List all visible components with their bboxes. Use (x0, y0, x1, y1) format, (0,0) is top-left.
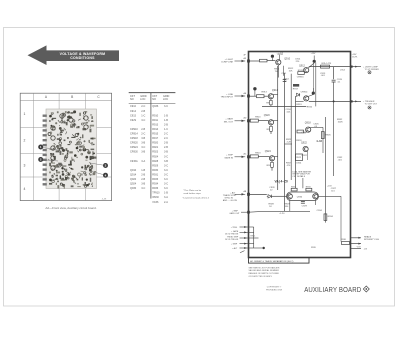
resistor R933 (306, 186, 312, 191)
resistor R909 (260, 59, 268, 62)
svg-text:R920: R920 (152, 142, 159, 145)
resistor R914 (321, 63, 332, 68)
svg-text:R916: R916 (307, 107, 313, 109)
capacitor C928 (269, 187, 275, 191)
svg-text:3-C: 3-C (164, 187, 168, 190)
svg-text:C914: C914 (130, 110, 137, 113)
wire ground rail y211 (249, 211, 311, 215)
connector pin B1 + TRIG (231, 226, 249, 229)
wire bus right mid (304, 132, 306, 134)
input terminal AB + ALT TRACE SYNC (223, 190, 250, 202)
resistor R915 (298, 70, 305, 75)
wire trigd swp y237 (249, 236, 259, 238)
svg-text:A2. SWEEP & TRACE SEPARATION: A2. SWEEP & TRACE SEPARATION (SH 2) (250, 260, 293, 263)
wire Q924 collector to bus (274, 155, 278, 157)
svg-text:R915: R915 (298, 70, 304, 72)
svg-text:3-B: 3-B (141, 142, 145, 145)
bus signal vertical C (295, 96, 297, 188)
wire +15V dots link (312, 63, 314, 92)
svg-text:+ LIGHT: + LIGHT (225, 59, 234, 61)
wire bus bl vertical (249, 227, 254, 248)
svg-text:L914: L914 (340, 69, 346, 71)
wire input 1 to R909 (243, 54, 259, 61)
svg-text:Q910: Q910 (130, 169, 137, 172)
capacitor C912 (284, 78, 290, 82)
svg-text:R926: R926 (325, 134, 331, 136)
svg-text:1-B: 1-B (164, 192, 168, 195)
label C927 (331, 188, 337, 192)
label CR916 (297, 76, 305, 78)
ground stub bottom left (240, 251, 245, 253)
svg-text:3-C: 3-C (164, 183, 168, 186)
label C916 (286, 109, 292, 113)
svg-text:C910: C910 (130, 105, 137, 108)
capacitor C929 (301, 202, 308, 208)
output label READS INTENSITY (364, 235, 379, 241)
svg-text:3-B: 3-B (141, 183, 145, 186)
svg-text:3-C: 3-C (141, 187, 145, 190)
wire C915 down (333, 82, 335, 176)
svg-text:DLYD TRIG IN: DLYD TRIG IN (225, 239, 239, 241)
wire Q930A emitter down (289, 199, 291, 211)
capacitor C922 (302, 155, 308, 157)
wire horizontal y106 (262, 105, 306, 107)
svg-text:CKT DETAILS: CKT DETAILS (292, 175, 305, 178)
svg-text:3-C: 3-C (164, 173, 168, 176)
bus signal vertical A (284, 73, 286, 211)
label R925 (286, 139, 292, 143)
svg-text:Q936: Q936 (152, 105, 159, 108)
svg-text:CR910: CR910 (130, 128, 138, 131)
svg-text:3-A: 3-A (141, 160, 145, 163)
transistor Q920 (264, 114, 274, 125)
svg-text:1-B: 1-B (164, 119, 168, 122)
wire input5 to CR930 (249, 194, 267, 196)
transistor Q910 (276, 58, 291, 65)
svg-text:1-C: 1-C (141, 114, 145, 117)
svg-text:COMP LINE: COMP LINE (221, 62, 234, 64)
wire Q920 collector to bus (273, 120, 278, 122)
label R916b (307, 107, 313, 109)
svg-text:R917: R917 (293, 88, 299, 90)
svg-text:3-A: 3-A (164, 196, 168, 199)
resistor R920 (250, 117, 261, 123)
svg-text:R936: R936 (152, 187, 159, 190)
wire Q930B collector right (319, 195, 342, 197)
svg-text:Q918: Q918 (305, 122, 312, 125)
svg-text:R913: R913 (152, 123, 159, 126)
label C932 (337, 157, 343, 161)
output label +LIGHT COMP (363, 66, 379, 71)
connector pin B2 + GATE (225, 230, 248, 235)
A2 auxiliary circuit board photo (43, 109, 97, 189)
parts location table (129, 93, 176, 204)
svg-text:R924: R924 (152, 155, 159, 158)
svg-text:2-B: 2-B (164, 142, 168, 145)
svg-text:R919: R919 (296, 104, 302, 106)
output wire y248.4 (351, 247, 368, 251)
svg-text:R910: R910 (152, 114, 159, 117)
output label +TRIGGER (363, 101, 377, 106)
svg-text:3-C: 3-C (164, 169, 168, 172)
resistor R938 (311, 239, 350, 249)
capacitor C934 (317, 210, 323, 212)
svg-text:Q910: Q910 (284, 58, 291, 61)
svg-text:1: 1 (24, 112, 26, 116)
label R927 (286, 163, 292, 167)
svg-text:VA| 4–Z0: VA| 4–Z0 (275, 180, 288, 184)
test point TP910 (271, 54, 284, 61)
+15V stub top right (311, 53, 316, 63)
svg-text:R921: R921 (152, 146, 159, 149)
wire Q910 emitter down (277, 65, 279, 78)
svg-text:OR DEPICTED IN GREY.: OR DEPICTED IN GREY. (249, 276, 273, 278)
svg-text:2-B: 2-B (141, 128, 145, 131)
wire node to edge y101 (309, 100, 351, 102)
input terminal AA sweep gate (229, 210, 249, 215)
svg-text:CR924: CR924 (130, 146, 138, 149)
capacitor C914 (295, 58, 301, 62)
input terminal AE + LINE TRIG INPUT (221, 92, 250, 99)
connector pin B4 + SWP (231, 243, 249, 246)
svg-text:3-B: 3-B (164, 151, 168, 154)
svg-text:CR930: CR930 (130, 151, 138, 154)
svg-text:2: 2 (24, 139, 26, 143)
svg-text:W930: W930 (152, 196, 159, 199)
wire alt y248 (249, 247, 265, 249)
wire to C915 (333, 67, 335, 80)
resistor R924 (267, 161, 274, 171)
svg-text:C929: C929 (130, 119, 137, 122)
label C924 (296, 163, 302, 165)
transistor Q912 (299, 64, 309, 72)
svg-text:3-C: 3-C (164, 105, 168, 108)
svg-text:R920: R920 (255, 117, 261, 119)
svg-text:2-C: 2-C (141, 133, 145, 136)
svg-text:3-C: 3-C (141, 119, 145, 122)
svg-text:INTENSITY SIG: INTENSITY SIG (364, 239, 379, 241)
wire Q914 collector to bus (273, 93, 278, 95)
svg-text:*Lowered no loads of line 4: *Lowered no loads of line 4 (183, 197, 210, 200)
wire Q916 base left (296, 100, 304, 102)
svg-text:2.2K: 2.2K (287, 142, 292, 144)
svg-text:CONDITIONS: CONDITIONS (70, 56, 95, 60)
svg-text:R928: R928 (152, 160, 159, 163)
resistor R929 (284, 204, 290, 208)
diagram title AUXILIARY BOARD (304, 286, 369, 294)
schematic border (249, 52, 351, 258)
svg-text:R913: R913 (262, 91, 268, 93)
wire input 2 (249, 95, 257, 97)
svg-text:C934: C934 (317, 210, 323, 212)
svg-text:2-A: 2-A (164, 201, 168, 204)
label R932 (337, 119, 343, 123)
svg-text:3-C: 3-C (164, 164, 168, 167)
callout 3 (90, 163, 108, 168)
dual transistor Q930 package (287, 192, 319, 201)
svg-text:+ SWP: + SWP (231, 243, 238, 245)
svg-text:4–20: 4–20 (280, 213, 286, 215)
svg-text:1-B: 1-B (141, 169, 145, 172)
svg-text:10K: 10K (289, 71, 293, 73)
svg-text:AUXILIARY BOARD: AUXILIARY BOARD (304, 286, 361, 294)
svg-text:DLYD TRIG IN: DLYD TRIG IN (225, 233, 239, 235)
resistor R928 (269, 204, 275, 208)
svg-text:R917: R917 (152, 137, 159, 140)
svg-text:3-C: 3-C (164, 178, 168, 181)
transistor Q924 (265, 150, 275, 161)
wire input 3 (249, 120, 251, 122)
svg-text:TO LT DRIVER: TO LT DRIVER (365, 69, 380, 71)
svg-text:used further steps: used further steps (183, 192, 201, 195)
resistor R921 (267, 125, 273, 134)
diode CR930 (267, 195, 272, 198)
svg-text:3: 3 (24, 164, 26, 168)
svg-text:+ GATE: + GATE (225, 118, 233, 121)
output wire y237.8 (351, 237, 362, 239)
svg-text:Q914: Q914 (130, 173, 137, 176)
svg-text:C911: C911 (281, 73, 287, 75)
+15V stub Q916 (308, 88, 315, 96)
svg-text:R915: R915 (152, 133, 159, 136)
svg-text:+ SWP: + SWP (226, 155, 233, 157)
svg-text:CR918: CR918 (130, 137, 138, 140)
svg-text:2-B: 2-B (141, 173, 145, 176)
svg-text:C924: C924 (296, 163, 302, 165)
svg-text:R934: R934 (152, 183, 159, 186)
note block master sweep (292, 170, 311, 178)
wire R926 down (307, 151, 309, 160)
svg-text:SEE PARTS LIST FOR EARLIER: SEE PARTS LIST FOR EARLIER (249, 266, 280, 269)
resistor R931 (291, 186, 297, 191)
svg-text:LOC: LOC (140, 98, 145, 101)
output wire y243.6 (351, 243, 362, 245)
svg-text:100K: 100K (338, 121, 344, 123)
svg-text:2-C: 2-C (164, 137, 168, 140)
label R919 (296, 104, 302, 106)
svg-text:4-48: 4-48 (102, 199, 107, 201)
input terminal AD + GATE SEL OUT (224, 117, 250, 124)
svg-text:Q924: Q924 (265, 150, 272, 153)
resistor R934 (324, 214, 334, 221)
resistor R913 (257, 91, 268, 97)
svg-text:C936A: C936A (130, 160, 138, 163)
svg-text:NO: NO (152, 98, 156, 101)
board caption (45, 199, 107, 210)
svg-text:Q924: Q924 (130, 183, 137, 186)
capacitor C915 (332, 79, 343, 84)
svg-text:+ ALT: + ALT (232, 247, 238, 250)
svg-text:B: B (71, 95, 73, 99)
waveform marker VA 4-20 (275, 180, 288, 184)
svg-text:1-C: 1-C (164, 128, 168, 131)
transistor Q922 (301, 141, 308, 151)
svg-text:3-C: 3-C (164, 155, 168, 158)
output wire y66.6 (350, 66, 361, 68)
label L914 (340, 69, 346, 71)
wire R913 to Q914 (264, 95, 268, 97)
svg-text:R914 47K: R914 47K (322, 63, 332, 65)
svg-text:R923: R923 (152, 151, 159, 154)
diode CR914 (297, 92, 309, 97)
svg-text:C929: C929 (302, 205, 308, 207)
svg-text:Q922: Q922 (301, 141, 308, 144)
resistor R917 (293, 84, 299, 90)
svg-text:2-C: 2-C (141, 105, 145, 108)
svg-text:DCPL: DCPL (352, 56, 358, 58)
svg-text:3-B: 3-B (164, 160, 168, 163)
wire CR930 to Q930A (271, 195, 286, 197)
capacitor C912 symbol (283, 80, 287, 82)
svg-text:Q920: Q920 (130, 178, 137, 181)
wire Q910 collector up (278, 53, 283, 61)
svg-text:2-C: 2-C (164, 133, 168, 136)
svg-text:RANGES OF PARTS OUTLINED: RANGES OF PARTS OUTLINED (249, 272, 280, 275)
svg-text:R933: R933 (152, 178, 159, 181)
svg-text:A2—Front view, Auxiliary circu: A2—Front view, Auxiliary circuit board. (45, 206, 96, 210)
callout 2 (38, 157, 58, 162)
svg-text:R930: R930 (152, 169, 159, 172)
wire R920 to Q920 (258, 120, 268, 122)
svg-text:3-B: 3-B (141, 137, 145, 140)
transistor Q916 (304, 96, 309, 101)
svg-text:4–16: 4–16 (316, 139, 322, 143)
svg-text:SYNC IN: SYNC IN (224, 198, 233, 200)
svg-text:R911: R911 (152, 119, 158, 122)
callout 4 (90, 171, 108, 178)
input terminal AF + LIGHT COMP LINE (221, 57, 250, 64)
svg-text:−15V: −15V (356, 247, 361, 249)
waveform marker 4-16 (316, 139, 322, 143)
coax symbol 2 (368, 106, 371, 109)
connector pin B5 + ALT (232, 247, 248, 250)
wire Q914 emitter down (266, 99, 272, 107)
svg-text:VOLTAGE & WAVEFORM: VOLTAGE & WAVEFORM (60, 52, 106, 56)
board locator grid frame (20, 93, 111, 200)
svg-text:CR916: CR916 (297, 76, 305, 78)
svg-text:NO: NO (130, 98, 134, 101)
resistor R923 (250, 152, 261, 158)
svg-text:TP910: TP910 (152, 192, 160, 195)
copyright note (266, 286, 283, 292)
svg-text:Q920: Q920 (264, 114, 271, 117)
coax symbol 1 (368, 71, 371, 74)
svg-text:+15V: +15V (311, 53, 316, 55)
capacitor C911 (281, 66, 287, 76)
svg-text:GATE IN: GATE IN (224, 157, 233, 160)
resistor R922 (296, 154, 303, 161)
+15V corner stub (352, 54, 359, 58)
svg-text:+ LINE: + LINE (226, 94, 233, 96)
svg-text:3-C: 3-C (141, 146, 145, 149)
svg-text:Q912: Q912 (299, 64, 306, 67)
svg-text:3-B: 3-B (141, 151, 145, 154)
schematic title block (249, 258, 310, 264)
wire R914 line to edge (309, 66, 351, 68)
connector pin B3 TRIGD SWP (225, 237, 248, 241)
svg-text:GATE OUT: GATE OUT (229, 212, 240, 215)
svg-text:CR914: CR914 (130, 133, 138, 136)
svg-text:2-B: 2-B (141, 178, 145, 181)
wire bus to R931 (302, 178, 304, 188)
callout 1 (38, 145, 58, 151)
wire Q930B emitter down (314, 199, 316, 205)
svg-text:R923: R923 (255, 152, 261, 154)
svg-text:R934: R934 (328, 216, 334, 218)
label C913 (320, 73, 326, 77)
svg-text:COPYRIGHT ©: COPYRIGHT © (267, 286, 282, 289)
section tab arrow VOLTAGE & WAVEFORM CONDITIONS (28, 45, 120, 65)
label C926 (313, 123, 319, 127)
transistor Q918 (305, 122, 312, 133)
svg-text:1-B: 1-B (164, 114, 168, 117)
wire right vert to outputs (340, 196, 342, 241)
svg-text:AND → GLOW: AND → GLOW (223, 199, 237, 202)
svg-text:C915: C915 (130, 114, 137, 117)
bus +15V vertical (277, 66, 279, 190)
svg-text:PROVIDED 1969: PROVIDED 1969 (266, 289, 283, 291)
svg-text:R929: R929 (152, 164, 159, 167)
wire stub y140 (285, 143, 293, 145)
input terminal AC + SWP GATE IN (224, 153, 249, 160)
resistor R918 (296, 130, 303, 142)
transistor Q914 (268, 89, 278, 99)
svg-text:4: 4 (24, 187, 26, 191)
bus +15V right (325, 117, 332, 223)
svg-text:XC36: XC36 (152, 201, 159, 204)
svg-text:2-B: 2-B (141, 110, 145, 113)
resistor R926 vertical (321, 132, 331, 139)
svg-text:*This Plate can be: *This Plate can be (183, 189, 202, 192)
resistor R911 (274, 68, 280, 73)
decoupling dot C913 (253, 87, 256, 96)
wire input 4 (249, 155, 251, 157)
svg-text:CR914: CR914 (301, 92, 309, 94)
svg-text:R931: R931 (152, 173, 159, 176)
capacitor C918 (302, 132, 308, 134)
svg-text:READS: READS (364, 235, 372, 238)
svg-text:LOC: LOC (163, 98, 168, 101)
wire R923 to Q924 (258, 155, 269, 157)
bus signal vertical B (290, 74, 292, 180)
output wire y101.4 (350, 100, 361, 102)
svg-text:Q930: Q930 (130, 187, 137, 190)
svg-text:2-B: 2-B (164, 146, 168, 149)
svg-text:C918: C918 (302, 132, 308, 134)
svg-text:VALUES AND SERIAL NUMBER: VALUES AND SERIAL NUMBER (249, 269, 280, 272)
reference notes (249, 266, 280, 277)
svg-text:C922: C922 (302, 155, 308, 157)
svg-text:R914: R914 (152, 128, 159, 131)
wire R909 to Q910 (267, 60, 275, 62)
svg-text:SEL OUT: SEL OUT (224, 122, 234, 124)
svg-text:TRIG INPUT: TRIG INPUT (221, 97, 234, 99)
svg-text:+ TRIG: + TRIG (231, 227, 238, 229)
wire Q918 collector (310, 127, 323, 153)
svg-text:2-B: 2-B (164, 123, 168, 126)
svg-text:+15V: +15V (278, 53, 283, 55)
wire Q912 collector (308, 63, 314, 68)
bus +15V right vertical (315, 63, 317, 107)
svg-text:TO CRT CKT: TO CRT CKT (365, 104, 378, 106)
svg-text:CR920: CR920 (130, 142, 138, 145)
label R912 (288, 68, 294, 72)
note: buffered output reference (183, 189, 210, 200)
svg-text:Q930: Q930 (297, 196, 303, 198)
